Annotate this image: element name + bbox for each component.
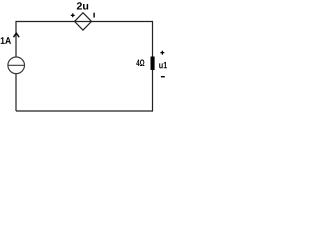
wire right (152, 21, 154, 112)
dependent source U2 diamond (75, 13, 92, 30)
current source I1 bar (8, 64, 25, 66)
label 2u (77, 2, 88, 9)
wire left lower (15, 74, 17, 112)
current arrow of I1 (14, 33, 20, 37)
minus tick of dependent source (93, 13, 94, 18)
label u1 (159, 62, 167, 69)
plus of dependent source (71, 13, 75, 17)
label 1A (1, 37, 11, 44)
current source I1 circle (8, 57, 25, 74)
resistor R1 body (151, 57, 155, 71)
wire bottom (16, 110, 153, 112)
minus of u1 (161, 76, 165, 77)
label 4 ohm (136, 60, 144, 67)
wire top (16, 21, 153, 23)
wire left upper (15, 21, 17, 57)
plus of u1 (160, 51, 164, 55)
